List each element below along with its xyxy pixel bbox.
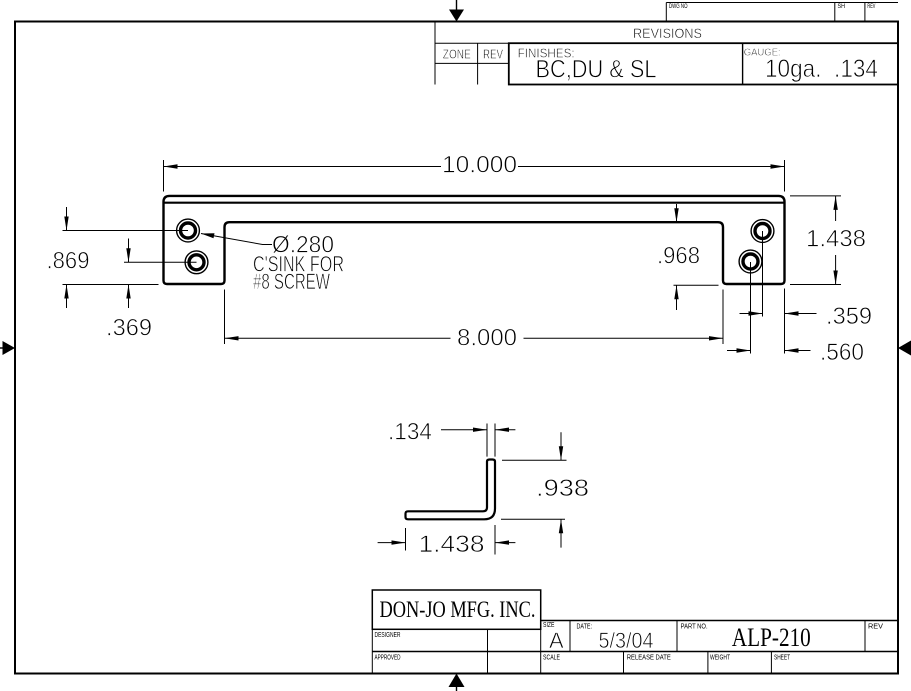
svg-text:PART NO.: PART NO. (681, 624, 708, 631)
svg-text:WEIGHT: WEIGHT (710, 655, 731, 662)
svg-text:.968: .968 (657, 243, 700, 270)
hole right-upper countersink (751, 220, 774, 243)
revisions table (435, 22, 898, 85)
title block left grid (372, 629, 898, 673)
hole left-upper countersink (177, 219, 200, 242)
svg-text:SH: SH (838, 3, 846, 10)
leader note countersink (201, 234, 272, 245)
centering mark bottom (449, 674, 465, 691)
dimension .938 (501, 432, 567, 547)
svg-text:.938: .938 (536, 475, 589, 502)
svg-text:1.438: 1.438 (419, 531, 485, 558)
dwg-no strip top right (666, 3, 898, 22)
dimension 1.438 main (790, 196, 841, 285)
svg-text:SCALE: SCALE (543, 655, 560, 662)
svg-text:DWG NO: DWG NO (669, 3, 688, 10)
centering mark left (0, 341, 15, 355)
dimension .560 (727, 350, 811, 352)
svg-text:RELEASE DATE: RELEASE DATE (627, 655, 671, 662)
dimension .968 (674, 204, 719, 310)
svg-text:.369: .369 (106, 315, 152, 342)
dimension 10.000 (164, 160, 785, 192)
svg-text:#8 SCREW: #8 SCREW (253, 269, 331, 294)
hole right-lower bore (743, 254, 758, 269)
dimension .369 (124, 239, 197, 309)
svg-text:.359: .359 (826, 303, 872, 330)
svg-text:5/3/04: 5/3/04 (599, 628, 654, 653)
dimension .359 (740, 231, 817, 354)
dimension 1.438 detail (378, 525, 516, 555)
hole left-lower countersink (185, 251, 208, 274)
title block right strip (541, 621, 898, 674)
svg-text:REV: REV (867, 3, 875, 10)
svg-text:ALP-210: ALP-210 (732, 622, 811, 652)
svg-text:DESIGNER: DESIGNER (375, 632, 401, 639)
svg-text:REVISIONS: REVISIONS (633, 25, 702, 41)
svg-text:.134: .134 (388, 419, 432, 446)
svg-text:REV: REV (868, 624, 883, 631)
centering mark right (898, 341, 911, 356)
bend line (164, 202, 785, 204)
hole right-upper bore (755, 224, 770, 239)
svg-text:REV: REV (483, 47, 503, 62)
detail view L profile (406, 460, 496, 520)
hole left-upper bore (181, 223, 196, 238)
svg-text:1.438: 1.438 (806, 226, 866, 253)
svg-text:ZONE: ZONE (443, 47, 471, 62)
svg-text:SHEET: SHEET (774, 655, 790, 662)
svg-text:8.000: 8.000 (457, 325, 517, 352)
svg-text:.869: .869 (47, 248, 90, 275)
title block company box (372, 590, 540, 629)
centering mark top (449, 0, 464, 22)
svg-text:DATE:: DATE: (577, 624, 593, 631)
hole left-lower bore (189, 255, 204, 270)
dimension 8.000 (225, 290, 724, 345)
hole right-lower countersink (739, 250, 762, 273)
svg-text:APPROVED: APPROVED (375, 655, 401, 662)
part outline (top view) (164, 196, 785, 284)
revisions table labels (443, 25, 878, 84)
dimension .134 (441, 424, 515, 457)
dimension .869 (63, 207, 189, 308)
svg-text:10.000: 10.000 (442, 152, 517, 179)
svg-text:10ga. .134: 10ga. .134 (765, 55, 878, 83)
svg-text:.560: .560 (820, 339, 864, 366)
svg-text:DON-JO MFG. INC.: DON-JO MFG. INC. (380, 597, 536, 622)
dwg-no labels (669, 3, 876, 10)
svg-text:A: A (549, 628, 564, 653)
svg-text:BC,DU & SL: BC,DU & SL (536, 56, 657, 84)
